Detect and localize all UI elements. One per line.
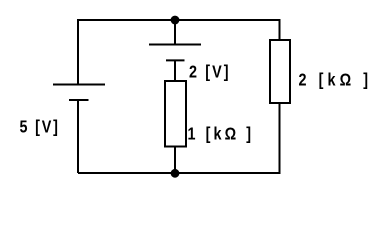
wire right vertical lower xyxy=(279,103,281,174)
resistor R1 body xyxy=(165,81,186,147)
wire right vertical upper xyxy=(279,19,281,39)
svg-text:1 [kΩ ]: 1 [kΩ ] xyxy=(188,124,252,144)
label 2 [kOhm] xyxy=(299,70,369,90)
battery V1 short plate xyxy=(69,99,89,101)
svg-text:5 [V]: 5 [V] xyxy=(20,117,58,137)
battery V2 long plate xyxy=(149,44,201,46)
svg-text:2 [V]: 2 [V] xyxy=(189,62,229,82)
label 5 [V] xyxy=(20,117,58,137)
battery V2 short plate xyxy=(166,59,185,61)
wire bottom horizontal xyxy=(78,172,280,174)
wire middle vertical between battery and resistor xyxy=(174,60,176,80)
node junction bottom xyxy=(171,169,180,178)
label 2 [V] xyxy=(189,62,229,82)
node junction top xyxy=(171,16,180,25)
wire top horizontal xyxy=(78,19,280,21)
wire left vertical lower xyxy=(77,100,79,173)
resistor R2 body xyxy=(270,40,290,103)
wire left vertical upper xyxy=(77,19,79,85)
svg-text:2 [kΩ ]: 2 [kΩ ] xyxy=(299,70,369,90)
label 1 [kOhm] xyxy=(188,124,252,144)
wire middle vertical lower xyxy=(174,147,176,174)
wire middle vertical from top node xyxy=(174,20,176,45)
battery V1 long plate xyxy=(53,84,105,86)
